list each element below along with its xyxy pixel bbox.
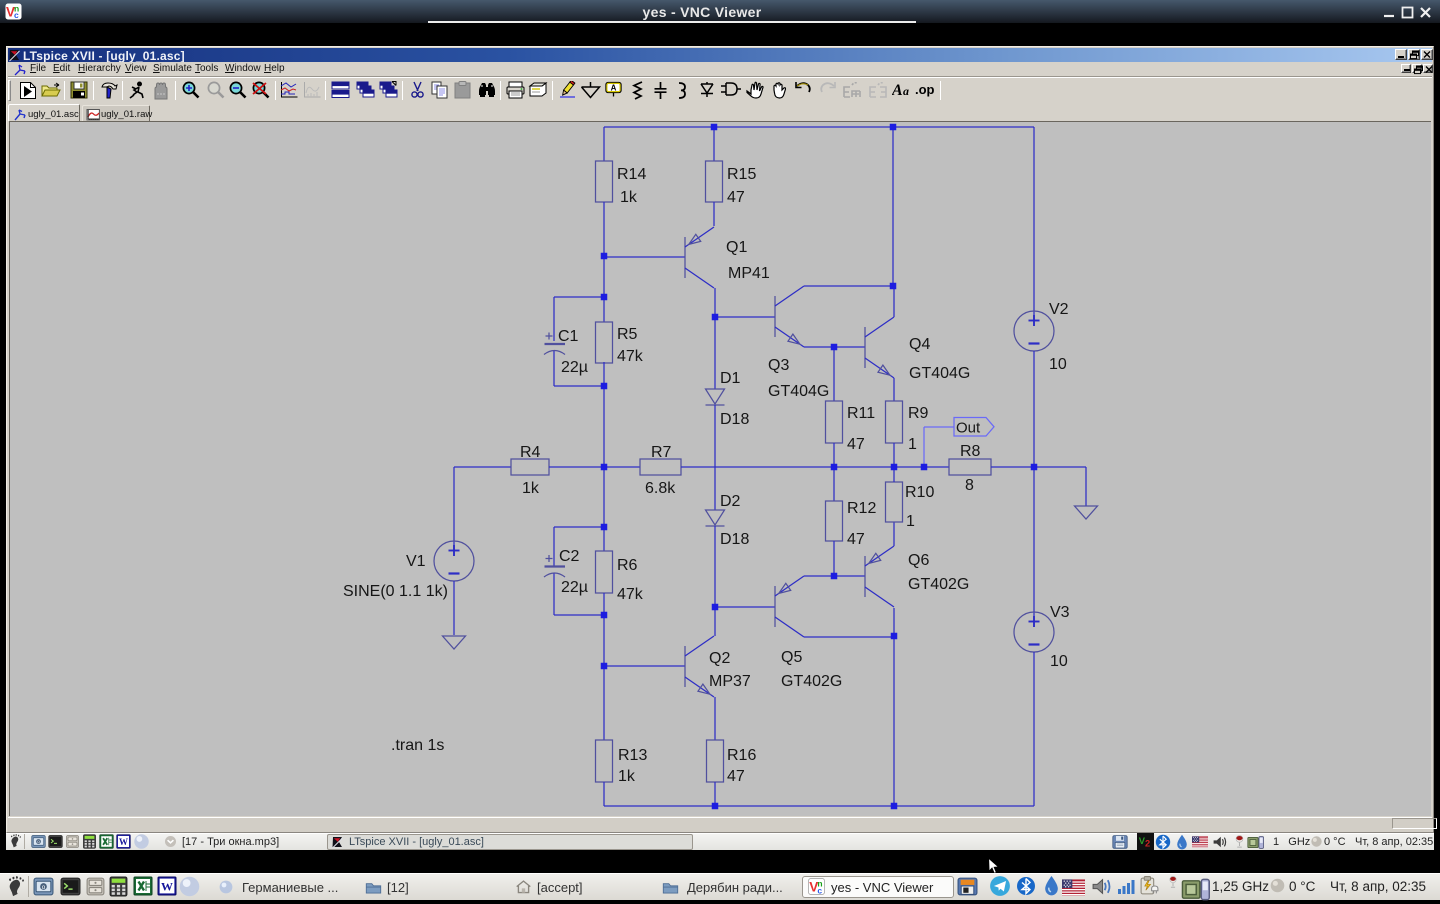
svg-text:47: 47 [727, 768, 745, 785]
svg-text:GT402G: GT402G [781, 673, 842, 690]
svg-text:R16: R16 [727, 747, 756, 764]
svg-text:8: 8 [965, 477, 974, 494]
svg-text:W: W [161, 880, 173, 894]
svg-text:47k: 47k [617, 348, 644, 365]
svg-text:R14: R14 [617, 166, 646, 183]
svg-text:D2: D2 [720, 493, 741, 510]
svg-text:R9: R9 [908, 405, 929, 422]
svg-text:22µ: 22µ [561, 579, 588, 596]
svg-text:D18: D18 [720, 531, 749, 548]
svg-text:MP37: MP37 [709, 673, 751, 690]
svg-text:GT404G: GT404G [909, 365, 970, 382]
svg-text:R7: R7 [651, 444, 672, 461]
svg-text:V2: V2 [1049, 301, 1069, 318]
svg-text:Q6: Q6 [908, 552, 929, 569]
svg-text:GT404G: GT404G [768, 383, 829, 400]
svg-text:R10: R10 [905, 484, 934, 501]
svg-text:R4: R4 [520, 444, 541, 461]
svg-text:1: 1 [906, 513, 915, 530]
svg-text:o: o [42, 884, 46, 891]
svg-text:V1: V1 [406, 553, 426, 570]
svg-text:1k: 1k [522, 480, 540, 497]
svg-text:2: 2 [1145, 839, 1150, 849]
svg-text:.tran 1s: .tran 1s [391, 737, 444, 754]
svg-text:SINE(0 1.1 1k): SINE(0 1.1 1k) [343, 583, 448, 600]
svg-text:c: c [817, 885, 822, 895]
svg-text:47: 47 [847, 531, 865, 548]
svg-text:47: 47 [727, 189, 745, 206]
svg-text:R6: R6 [617, 557, 638, 574]
svg-text:47: 47 [847, 436, 865, 453]
svg-text:D18: D18 [720, 411, 749, 428]
svg-text:R15: R15 [727, 166, 756, 183]
svg-text:1k: 1k [620, 189, 638, 206]
svg-text:R8: R8 [960, 443, 981, 460]
svg-text:R5: R5 [617, 326, 638, 343]
svg-text:Q4: Q4 [909, 336, 930, 353]
svg-text:Q1: Q1 [726, 239, 747, 256]
svg-text:22µ: 22µ [561, 359, 588, 376]
svg-text:10: 10 [1050, 653, 1068, 670]
svg-text:C2: C2 [559, 548, 580, 565]
svg-text:10: 10 [1049, 356, 1067, 373]
svg-text:1: 1 [908, 436, 917, 453]
svg-text:GT402G: GT402G [908, 576, 969, 593]
svg-text:C1: C1 [558, 328, 579, 345]
svg-text:MP41: MP41 [728, 265, 770, 282]
svg-text:Q2: Q2 [709, 650, 730, 667]
svg-text:R11: R11 [847, 405, 875, 422]
svg-text:1k: 1k [618, 768, 636, 785]
svg-text:Q5: Q5 [781, 649, 802, 666]
svg-text:W: W [119, 837, 128, 847]
svg-text:D1: D1 [720, 370, 741, 387]
svg-text:Out: Out [956, 420, 981, 437]
svg-text:Q3: Q3 [768, 357, 789, 374]
svg-text:V3: V3 [1050, 604, 1070, 621]
svg-text:6.8k: 6.8k [645, 480, 676, 497]
svg-text:47k: 47k [617, 586, 644, 603]
svg-text:R12: R12 [847, 500, 876, 517]
svg-text:R13: R13 [618, 747, 647, 764]
